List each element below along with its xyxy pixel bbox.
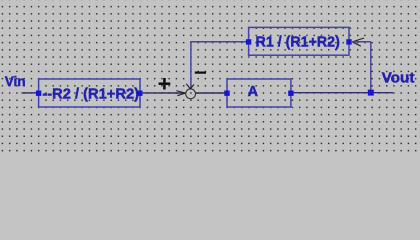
svg-text:--R2 / (R1+R2): --R2 / (R1+R2)	[42, 86, 139, 102]
wire feedback top-right horizontal	[352, 41, 371, 43]
minus sign	[195, 72, 206, 74]
feedback block H1 body	[249, 27, 349, 55]
summing junction circle	[186, 89, 196, 99]
wire feedback top-left horizontal	[190, 41, 246, 43]
arrow into summer left	[176, 91, 185, 96]
pin H1 input	[246, 39, 251, 44]
arrow into summer top	[186, 84, 194, 89]
pin G1 output	[137, 91, 142, 96]
gain block A body	[227, 79, 291, 107]
pin A input	[224, 91, 229, 96]
pin A output	[288, 91, 293, 96]
svg-text:R1 / (R1+R2): R1 / (R1+R2)	[256, 34, 340, 50]
svg-text:Vout: Vout	[382, 70, 415, 86]
wire feedback left vertical	[190, 42, 192, 88]
svg-text:A: A	[248, 84, 259, 100]
arrow into H1 right pin	[352, 38, 364, 46]
wire A to output	[293, 92, 393, 94]
wire feedback right vertical	[370, 42, 372, 93]
wire input segment	[22, 92, 37, 94]
plus sign	[159, 78, 171, 90]
svg-text:Vin: Vin	[5, 73, 26, 89]
wire summer to A	[195, 92, 226, 94]
wire G1 to summer	[142, 92, 185, 94]
pin H1 output	[346, 39, 351, 44]
gain block G1 body	[39, 79, 140, 107]
pin G1 input	[36, 91, 41, 96]
junction node at Vout tap	[368, 90, 374, 96]
